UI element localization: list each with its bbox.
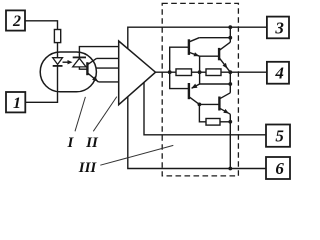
wire R2 to R3 [192, 71, 207, 73]
transistor Q4 [219, 93, 230, 114]
transistor Q1 [189, 38, 200, 57]
terminal box 3 [267, 17, 289, 39]
junction output node [228, 70, 232, 74]
terminal box 5 [266, 125, 290, 147]
node branch to Q1 and Q3 bases [170, 47, 189, 88]
wire node down to resistor R4 [199, 104, 206, 121]
wire VT1 collector to amp input 2 [97, 57, 119, 59]
wire amp output [156, 71, 177, 73]
wire R4 to bus [220, 121, 230, 123]
wire Q1 emitter to Q2 base [200, 55, 220, 57]
terminal box 1 [6, 92, 25, 112]
junction R2-R3 node [198, 70, 202, 74]
terminal box 2 [6, 10, 25, 30]
junction Q3 emitter line to Q4 collector [228, 82, 232, 86]
wire Q3 collector to Q4 base [199, 103, 219, 105]
wire package to amp input 3 [96, 67, 118, 69]
wire R1 to LED anode [57, 43, 59, 58]
wire Q4 collector up to junction [229, 84, 231, 93]
wire Q1 collector to bus [199, 37, 230, 39]
wire box 2 to resistor R1 [25, 21, 58, 30]
svg-text:2: 2 [12, 13, 21, 30]
junction Q3 collector node [198, 103, 202, 107]
terminal box 6 [266, 157, 290, 179]
bus segment output node down [229, 72, 231, 84]
wire Q4 emitter to bottom rail [229, 114, 231, 168]
wire Q1 emitter down to R2-R3 node [199, 56, 201, 72]
junction Q1 collector [228, 36, 232, 40]
wire photodiode cathode to amp input 1 [79, 47, 118, 58]
transistor Q2 [219, 42, 230, 72]
junction apex node [168, 70, 172, 74]
light emission arrow [63, 60, 73, 64]
wire Q2 collector to top rail [229, 27, 231, 42]
amplifier II triangle [119, 41, 156, 105]
resistor R4 [206, 119, 220, 126]
photodiode VD2 [73, 57, 86, 67]
svg-text:3: 3 [274, 18, 284, 37]
junction R4 bus [228, 120, 232, 124]
transistor Q3 (pnp) [189, 72, 230, 104]
bottom rail to box 6 [128, 97, 266, 169]
resistor R2 [176, 69, 192, 76]
resistor R1 [54, 30, 60, 43]
terminal box 4 [267, 62, 289, 84]
svg-text:III: III [78, 160, 98, 176]
junction bottom rail [228, 167, 232, 171]
output-stage dashed box III [162, 3, 238, 176]
svg-text:I: I [66, 135, 74, 151]
wire LED cathode to box 1 [25, 66, 57, 102]
wire R3 to box 4 output [221, 71, 267, 73]
wire VT1 emitter to amp input 4 [98, 81, 118, 83]
svg-text:4: 4 [274, 64, 284, 83]
LED VD1 [53, 58, 63, 66]
label I with leader [66, 97, 85, 151]
phototransistor VT1 [87, 58, 98, 82]
wire photodiode anode to VT1 base [79, 67, 87, 69]
resistor R3 [206, 69, 221, 76]
label III with leader [78, 145, 174, 176]
svg-text:1: 1 [13, 95, 21, 112]
label II with leader [85, 97, 117, 151]
junction top rail [228, 25, 232, 29]
svg-text:II: II [85, 135, 99, 151]
svg-text:6: 6 [275, 159, 284, 178]
svg-text:5: 5 [275, 126, 284, 145]
optocoupler package U1 [40, 52, 96, 92]
top supply rail to box 3 [128, 27, 267, 49]
wire amp to box 5 [144, 83, 266, 135]
